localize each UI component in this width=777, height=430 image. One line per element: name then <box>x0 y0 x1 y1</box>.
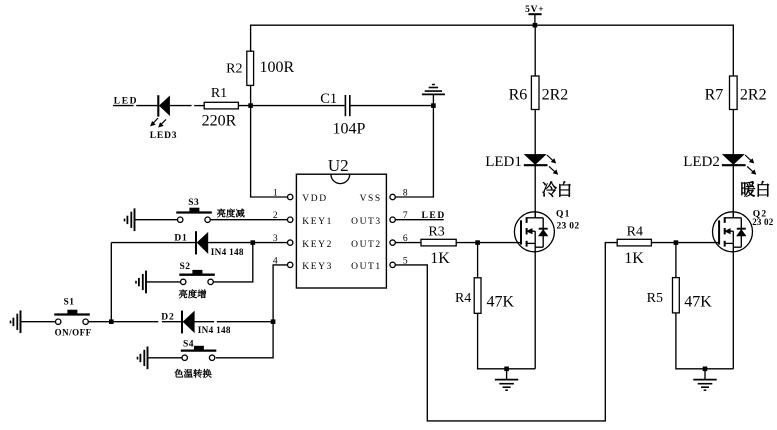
svg-text:5V+: 5V+ <box>525 5 544 15</box>
switch S4 (color-temp toggle) <box>174 339 216 377</box>
wire C1 to ground <box>350 105 434 107</box>
wire R1 to C1 <box>238 105 344 107</box>
junction Q1 gate/R4 <box>475 240 480 245</box>
wire KEY1 pin2 <box>210 219 287 221</box>
junction S1/riser <box>109 319 114 324</box>
wire VSS feed <box>395 106 433 197</box>
wire OUT1 pin5 route <box>395 243 617 421</box>
wire LED stub <box>113 105 134 107</box>
svg-text:R2: R2 <box>226 62 242 77</box>
wire Q1 source <box>534 252 536 369</box>
wire R3 to Q1 gate <box>456 242 521 244</box>
wire R4 bottom lead <box>478 313 536 369</box>
svg-text:R6: R6 <box>509 86 528 103</box>
wire 5V+ top rail <box>251 25 734 76</box>
wire R5 bottom lead <box>676 313 733 369</box>
svg-text:1K: 1K <box>624 250 644 267</box>
svg-text:2R2: 2R2 <box>740 86 767 103</box>
wire KEY3 pin4 riser <box>216 265 288 358</box>
diode D1 IN4148 <box>174 231 243 257</box>
svg-text:R5: R5 <box>647 291 663 306</box>
junction Q2 source ground tap <box>703 367 708 372</box>
ground at Q1 source <box>495 369 518 390</box>
wire OUT3 pin7 stub <box>395 219 443 221</box>
resistor R5 47K <box>647 243 713 313</box>
svg-text:VDD: VDD <box>302 194 327 204</box>
svg-text:OUT3: OUT3 <box>351 217 382 227</box>
net label LED (pin7) <box>422 211 446 221</box>
wire S1 to D2 <box>88 321 158 323</box>
svg-text:R4: R4 <box>455 291 471 306</box>
svg-text:LED2: LED2 <box>683 154 720 170</box>
switch S1 (ON/OFF) <box>54 297 91 337</box>
ground (signal ground top) <box>422 85 445 106</box>
LED LED1 (cold white) <box>485 154 570 197</box>
svg-text:220R: 220R <box>202 112 237 129</box>
switch S2 (brightness up) <box>179 262 215 298</box>
net label LED (left) <box>114 97 138 107</box>
wire LED3 anode <box>170 105 192 107</box>
junction Q2 gate/R5 <box>674 240 679 245</box>
wire S3 ground lead <box>135 219 178 221</box>
resistor R7 2R2 <box>705 76 767 110</box>
wire D2 anode <box>194 321 214 323</box>
svg-text:IN4 148: IN4 148 <box>211 247 244 257</box>
svg-text:R4: R4 <box>627 225 643 240</box>
svg-text:KEY1: KEY1 <box>302 217 333 227</box>
LED LED2 (warm white) <box>683 154 769 197</box>
ground at S3 <box>125 208 135 231</box>
junction 5V+ on rail <box>533 23 538 28</box>
ground at S1 <box>11 310 21 333</box>
resistor R6 2R2 <box>509 76 569 110</box>
ground at S4 <box>138 347 148 370</box>
wire to D2 cathode <box>162 321 181 323</box>
svg-text:8: 8 <box>403 188 408 198</box>
svg-text:2R2: 2R2 <box>542 86 569 103</box>
wire S1 ground lead <box>21 321 56 323</box>
svg-text:S4: S4 <box>183 339 194 349</box>
wire riser to D1 line <box>110 243 112 322</box>
svg-text:KEY2: KEY2 <box>302 240 333 250</box>
svg-text:104P: 104P <box>333 121 366 138</box>
wire D1 anode to KEY2 pin3 <box>208 242 288 244</box>
junction D2/pin4 riser <box>271 319 276 324</box>
svg-text:1: 1 <box>273 188 278 198</box>
wire VDD feed <box>251 106 288 197</box>
svg-text:OUT2: OUT2 <box>351 240 382 250</box>
resistor R1 220R <box>202 86 239 129</box>
svg-text:R3: R3 <box>428 225 444 240</box>
svg-text:D1: D1 <box>174 233 187 243</box>
wire LED1 to Q1 drain <box>534 165 536 218</box>
ground at S2 <box>136 271 146 294</box>
svg-text:ON/OFF: ON/OFF <box>55 328 92 338</box>
wire to R1 <box>194 105 204 107</box>
junction pin3/S2 <box>251 240 256 245</box>
svg-text:100R: 100R <box>260 59 295 76</box>
wire Q2 source <box>732 252 734 369</box>
svg-text:OUT1: OUT1 <box>351 262 382 272</box>
resistor R3 1K <box>421 225 456 267</box>
wire R7 to LED2 <box>732 110 734 155</box>
svg-text:D2: D2 <box>161 313 174 323</box>
wire LED2 to Q2 drain <box>732 165 734 218</box>
svg-text:S2: S2 <box>179 262 190 272</box>
svg-text:47K: 47K <box>487 293 515 310</box>
resistor R2 100R <box>226 51 294 85</box>
svg-text:IN4 148: IN4 148 <box>198 325 231 335</box>
capacitor C1 104P <box>320 91 365 137</box>
power 5V+ supply symbol <box>525 5 544 25</box>
svg-text:47K: 47K <box>684 293 712 310</box>
svg-text:23 02: 23 02 <box>752 217 774 227</box>
svg-text:R7: R7 <box>705 86 724 103</box>
wire D1 cathode <box>111 242 195 244</box>
svg-text:R1: R1 <box>211 86 227 101</box>
resistor R4 1K (gate of Q2) <box>617 225 651 267</box>
svg-text:1K: 1K <box>430 250 450 267</box>
svg-text:23 02: 23 02 <box>557 221 580 231</box>
svg-text:C1: C1 <box>320 91 337 107</box>
wire R2 bottom lead <box>250 85 252 105</box>
svg-text:U2: U2 <box>328 156 349 175</box>
svg-text:S3: S3 <box>188 198 199 208</box>
junction Q1 source ground tap <box>504 367 509 372</box>
wire R6 top lead <box>534 25 536 76</box>
svg-text:LED: LED <box>422 211 446 221</box>
wire S4 ground lead <box>148 357 183 359</box>
wire S2 riser <box>213 243 252 282</box>
svg-text:VSS: VSS <box>360 194 382 204</box>
svg-text:LED3: LED3 <box>150 131 177 141</box>
junction R1/R2/VDD node <box>248 103 253 108</box>
op-amp U2 touch-dimmer IC <box>273 156 408 288</box>
resistor R4 47K <box>455 243 515 314</box>
transistor Q2 2302 N-MOSFET <box>713 209 774 252</box>
wire OUT2 pin6 to R3 <box>395 242 421 244</box>
wire D2 anode 2 <box>217 321 273 323</box>
ground at Q2 source <box>693 369 716 390</box>
wire S2 ground lead <box>146 281 181 283</box>
svg-text:Q1: Q1 <box>556 209 571 219</box>
svg-text:KEY3: KEY3 <box>302 262 333 272</box>
wire R6 to LED1 <box>534 110 536 155</box>
svg-text:S1: S1 <box>63 297 74 307</box>
svg-text:LED1: LED1 <box>485 154 522 170</box>
diode D2 IN4148 <box>161 311 231 336</box>
transistor Q1 2302 N-MOSFET <box>514 209 579 252</box>
LED LED3 <box>150 95 177 141</box>
junction C1/VSS/ground <box>431 103 436 108</box>
switch S3 (brightness down) <box>176 198 244 222</box>
wire R4 to Q2 gate <box>651 242 719 244</box>
wire to LED3 <box>136 105 157 107</box>
